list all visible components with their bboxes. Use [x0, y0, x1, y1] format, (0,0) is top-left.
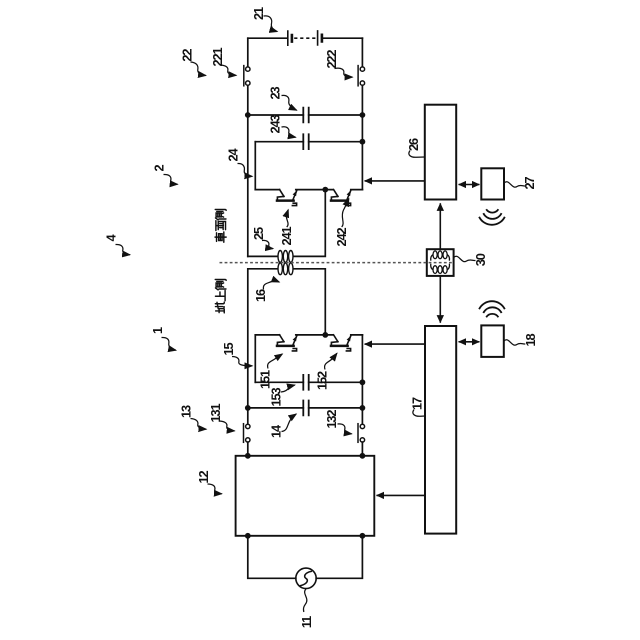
leader 2 — [164, 174, 178, 184]
controller box 17 — [425, 326, 456, 534]
svg-text:24: 24 — [226, 148, 241, 162]
svg-text:16: 16 — [253, 289, 268, 302]
junction box12 top right — [360, 453, 366, 459]
kanji soku (ground side) — [215, 279, 226, 289]
leader 1 — [162, 337, 176, 350]
junction box12 top left — [245, 453, 251, 459]
leader 11 — [303, 589, 306, 612]
svg-text:132: 132 — [324, 410, 339, 429]
svg-text:1: 1 — [150, 327, 165, 334]
svg-text:18: 18 — [523, 334, 538, 347]
boundary dashed line node 4 — [220, 262, 453, 264]
switch 222 — [358, 66, 364, 86]
leader 21 — [264, 16, 278, 32]
communicator box 18 — [481, 325, 504, 357]
capacitor 14 — [303, 401, 308, 416]
svg-text:22: 22 — [180, 49, 195, 62]
leader 26 — [409, 151, 425, 158]
svg-text:15: 15 — [221, 343, 236, 356]
double arrow 26 and 27 — [459, 184, 480, 186]
wireless arcs at 18 — [479, 301, 505, 317]
switch 132 — [358, 408, 365, 456]
junction right rail / cap14 — [360, 405, 366, 411]
arrow 26 to 24 — [365, 180, 425, 182]
wire coil16 right lead to box15 midpoint — [294, 269, 326, 335]
capacitor 14 row wire — [248, 407, 363, 409]
leader 131 — [220, 421, 235, 431]
transistor 241 — [277, 190, 297, 206]
arrow 17 to 15 — [365, 343, 425, 345]
svg-text:131: 131 — [208, 404, 223, 423]
rectifier box 12 — [236, 456, 375, 536]
transistor 242 — [331, 190, 351, 206]
junction box12 bottom right — [360, 533, 366, 539]
capacitor 243 row wire (box 24 top edge) — [255, 141, 362, 143]
junction right rail / cap23 — [360, 112, 366, 118]
leader 152 — [325, 353, 337, 369]
wire box12 to AC source right — [316, 536, 362, 579]
box 24 bottom edge with transistor breaks — [255, 189, 362, 191]
leader 12 — [208, 484, 222, 494]
svg-text:151: 151 — [258, 370, 273, 389]
leader 23 — [282, 95, 297, 110]
coil 16 — [278, 263, 293, 275]
svg-text:13: 13 — [179, 405, 194, 418]
svg-text:11: 11 — [299, 616, 314, 628]
wire right rail cap23 to box24 — [361, 115, 363, 142]
kanji chi — [215, 302, 224, 313]
svg-text:222: 222 — [324, 50, 339, 69]
wire coil25 left lead — [248, 255, 277, 257]
arrow 30 up to 26 — [439, 203, 441, 249]
svg-text:152: 152 — [315, 371, 330, 390]
transistor 151 — [277, 335, 297, 351]
wire bridge midpoint to coil 25 — [294, 190, 326, 257]
leader 243 — [282, 127, 296, 137]
wire box12 to AC source left — [248, 536, 296, 579]
svg-text:12: 12 — [196, 471, 211, 484]
switch 131 — [244, 408, 251, 456]
capacitor 243 — [303, 134, 308, 149]
leader 132 — [338, 424, 352, 434]
switch 221 — [244, 66, 250, 86]
svg-text:25: 25 — [251, 227, 266, 240]
leader 222 — [335, 68, 353, 77]
wire left rail top — [247, 38, 249, 66]
coupler 30 coils — [431, 251, 450, 274]
junction box12 bottom left — [245, 533, 251, 539]
svg-text:21: 21 — [251, 7, 266, 20]
battery 21 — [288, 31, 322, 45]
svg-text:26: 26 — [406, 138, 421, 151]
kanji sha — [215, 232, 226, 242]
coil 25 — [278, 251, 293, 263]
svg-text:241: 241 — [279, 227, 294, 246]
leader 4 — [116, 244, 130, 254]
arrow 17 to 12 — [377, 494, 426, 496]
leader 241 — [286, 210, 288, 227]
leader 18 — [504, 340, 525, 345]
svg-text:242: 242 — [334, 228, 349, 247]
wire battery top row — [248, 37, 363, 39]
svg-text:2: 2 — [152, 164, 167, 171]
junction bridge 24 midpoint — [322, 187, 328, 193]
inverter box 24 edges — [255, 142, 362, 190]
capacitor 153 row wire — [255, 381, 362, 383]
transistor 152 — [331, 335, 351, 351]
svg-text:27: 27 — [522, 177, 537, 190]
leader 15 — [232, 357, 252, 366]
leader 22 — [191, 62, 206, 76]
svg-text:23: 23 — [268, 87, 283, 100]
kanji ground-side label (chi-jo-soku) — [215, 279, 226, 312]
junction bridge 15 midpoint — [322, 332, 328, 338]
leader 16 — [263, 281, 279, 290]
kanji soku (vehicle side) — [215, 209, 226, 219]
junction right rail / cap153 — [360, 379, 366, 385]
kanji ryo — [216, 221, 226, 231]
leader 13 — [191, 419, 207, 430]
svg-text:243: 243 — [268, 115, 283, 134]
svg-text:153: 153 — [269, 388, 284, 407]
svg-text:17: 17 — [410, 397, 425, 410]
leader 24 — [238, 163, 253, 176]
leader 153 — [281, 385, 295, 392]
reference numerals (rotated) — [104, 7, 539, 628]
svg-text:221: 221 — [210, 48, 225, 67]
svg-text:30: 30 — [473, 253, 488, 266]
kanji vehicle-side label (sha-ryo-soku) — [215, 209, 226, 242]
leader 27 — [504, 182, 525, 187]
box 15 side edges — [255, 335, 362, 408]
junction left rail / cap23 — [245, 112, 251, 118]
capacitor 23 — [303, 108, 308, 123]
communicator box 27 — [481, 168, 504, 199]
controller box 26 — [425, 105, 456, 200]
wire right rail to cap23 row — [361, 85, 363, 115]
leader 14 — [282, 414, 297, 432]
wire coil16 left lead and left rail down — [248, 269, 277, 408]
kanji jo — [215, 290, 225, 300]
leader 30 — [454, 256, 476, 261]
capacitor 23 row wire — [248, 114, 363, 116]
leader 151 — [268, 354, 283, 369]
leader 25 — [262, 240, 273, 248]
coupler box 30 — [427, 249, 454, 276]
svg-text:14: 14 — [269, 424, 284, 438]
double arrow 17 and 18 — [459, 341, 480, 343]
wire left rail to cap23 and coil25 — [247, 85, 249, 256]
wireless arcs at 27 — [479, 209, 505, 225]
leader 221 — [221, 65, 237, 75]
leader 242 — [342, 199, 349, 227]
AC source 11 — [296, 568, 316, 588]
capacitor 153 — [303, 375, 308, 390]
leader lines — [116, 16, 526, 612]
arrow 30 down to 17 — [439, 276, 441, 323]
wire right rail top — [361, 38, 363, 66]
leader 17 — [413, 410, 425, 417]
box 15 top edge with transistor breaks — [255, 334, 362, 336]
junction left rail / cap14 — [245, 405, 251, 411]
junction right rail / cap243 — [360, 139, 366, 145]
